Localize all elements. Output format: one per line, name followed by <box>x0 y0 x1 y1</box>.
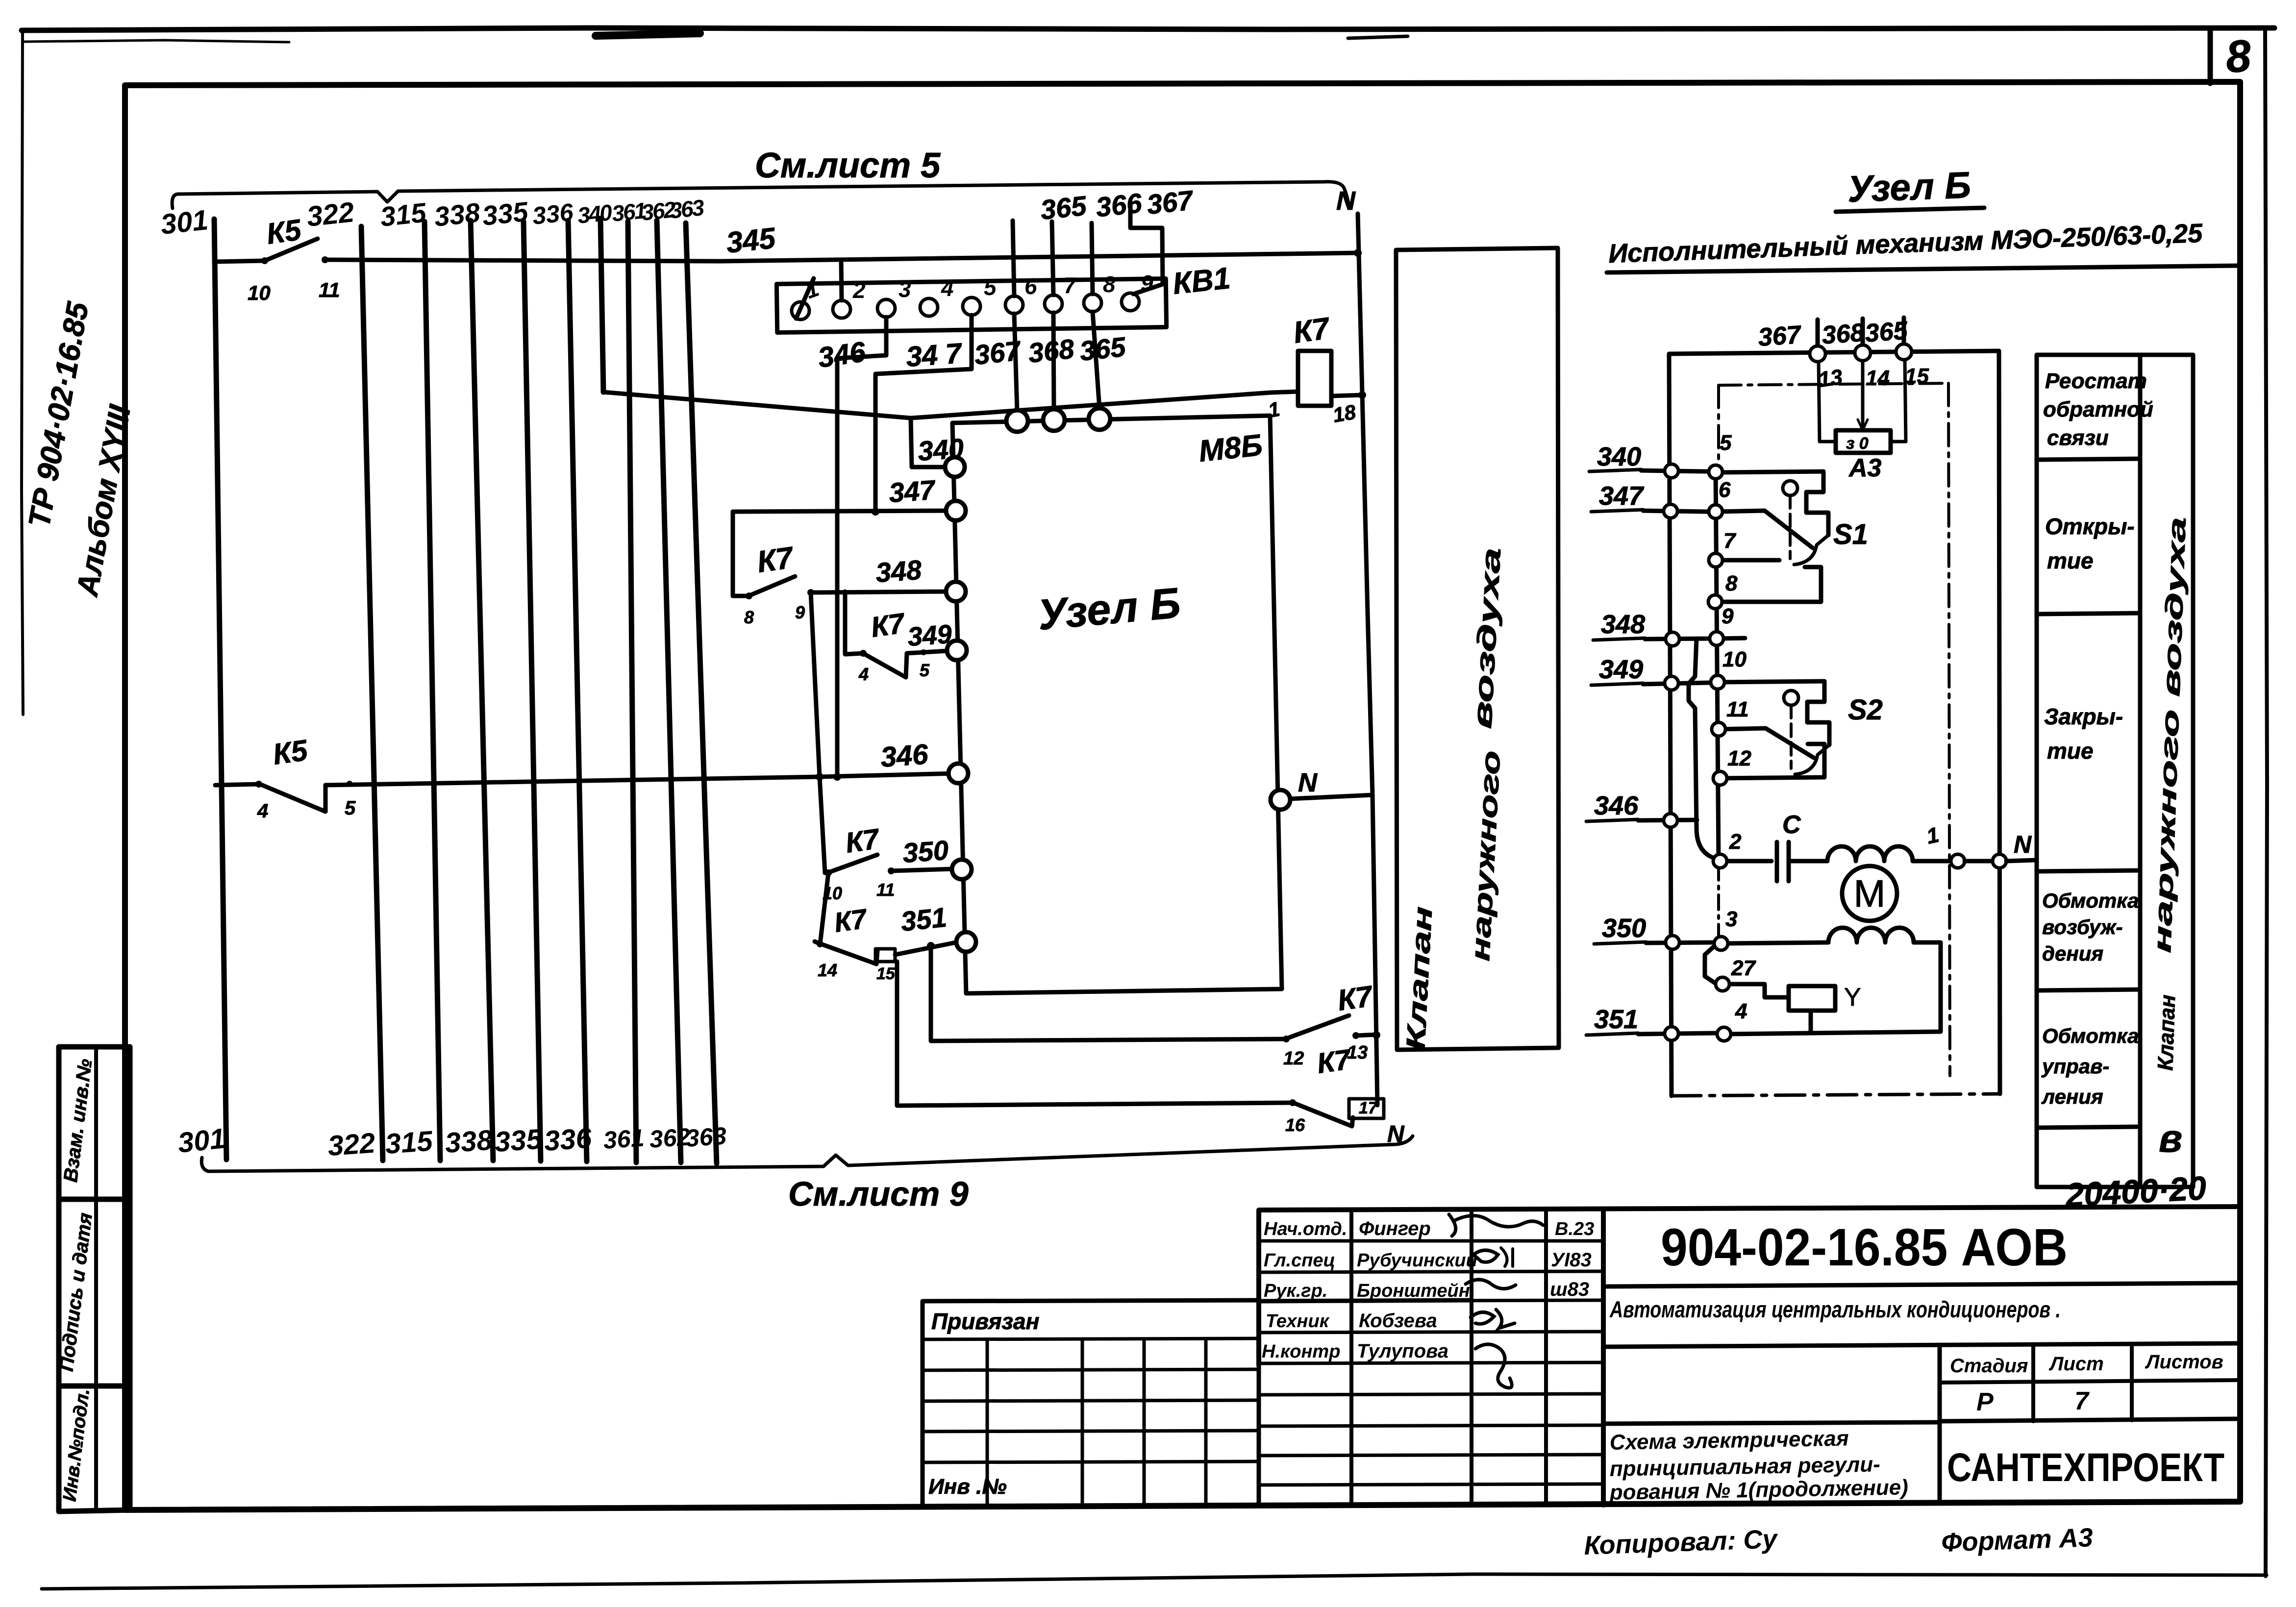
svg-text:335: 335 <box>494 1123 544 1158</box>
svg-text:Рубучинский: Рубучинский <box>1357 1250 1477 1271</box>
unit box Uzel B <box>952 416 1282 993</box>
KB1 pin 5 <box>963 297 980 315</box>
svg-text:904-02-16.85 АОВ: 904-02-16.85 АОВ <box>1661 1217 2068 1277</box>
svg-text:N: N <box>1298 768 1318 797</box>
paper bottom border <box>42 1574 2267 1589</box>
damper solenoid Y <box>1731 983 1861 1033</box>
svg-text:Бронштейн: Бронштейн <box>1357 1281 1470 1301</box>
svg-text:8: 8 <box>744 607 754 627</box>
svg-text:возбуж-: возбуж- <box>2042 915 2123 939</box>
svg-text:в: в <box>2159 1116 2182 1160</box>
terminal row 349 <box>1591 647 1747 685</box>
svg-text:34 7: 34 7 <box>905 337 964 373</box>
contact K5 10-11 <box>248 213 340 304</box>
KB1 pin 2 <box>833 300 850 318</box>
svg-text:315: 315 <box>379 197 428 232</box>
paper top border <box>22 28 2274 30</box>
node 340 on box <box>945 457 965 477</box>
svg-text:Узел Б: Узел Б <box>1847 164 1972 210</box>
svg-text:Р: Р <box>1976 1388 1994 1416</box>
svg-text:5: 5 <box>920 660 930 680</box>
svg-text:335: 335 <box>481 196 530 231</box>
svg-text:348: 348 <box>1601 610 1645 639</box>
svg-text:9: 9 <box>1722 604 1734 628</box>
svg-text:К7: К7 <box>832 903 870 938</box>
svg-text:3: 3 <box>898 276 911 302</box>
wire 345 drop to KB1 pin 2 <box>841 260 842 300</box>
wire leg to node 340 <box>911 418 946 467</box>
wire bus 362 <box>657 221 681 1162</box>
underline subtitle <box>1607 266 2240 272</box>
svg-text:11: 11 <box>1726 697 1749 721</box>
svg-text:8: 8 <box>1103 272 1116 297</box>
legend divider zakrytie <box>2037 870 2140 871</box>
svg-text:365: 365 <box>1078 331 1127 367</box>
svg-text:Гл.спец: Гл.спец <box>1264 1250 1335 1271</box>
title block outer <box>1259 1207 2240 1505</box>
svg-text:К7: К7 <box>844 823 882 859</box>
svg-text:347: 347 <box>888 474 937 508</box>
svg-text:14: 14 <box>1866 366 1890 390</box>
svg-text:обратной: обратной <box>2043 397 2153 421</box>
svg-text:КВ1: КВ1 <box>1171 261 1232 301</box>
svg-text:К7: К7 <box>1291 311 1332 350</box>
svg-text:17: 17 <box>1359 1099 1378 1117</box>
left stamp table divider row1 <box>59 1197 130 1202</box>
wire 367 top drop to pin 8 <box>1092 223 1093 294</box>
svg-text:Нач.отд.: Нач.отд. <box>1264 1219 1347 1239</box>
svg-text:2: 2 <box>1729 830 1742 854</box>
svg-text:363: 363 <box>685 1122 727 1152</box>
svg-text:К7: К7 <box>1335 979 1375 1016</box>
wire 367 top stub <box>1816 320 1820 354</box>
svg-text:338: 338 <box>433 197 482 232</box>
svg-text:5: 5 <box>345 797 356 819</box>
left margin stamp table <box>59 1047 130 1511</box>
svg-text:340: 340 <box>576 199 614 228</box>
terminal circles on actuator box edge <box>1665 464 1678 478</box>
svg-text:366: 366 <box>1095 187 1144 223</box>
node 348 on box <box>946 582 966 601</box>
svg-text:УІ83: УІ83 <box>1551 1249 1592 1271</box>
wire bus 322 <box>361 226 383 1161</box>
capacitor C and row 2 <box>1726 811 1827 881</box>
paper left border <box>22 29 23 715</box>
pryvyazan box <box>923 1300 1259 1506</box>
svg-text:346: 346 <box>816 336 868 374</box>
svg-text:348: 348 <box>874 554 923 588</box>
wire to terminal 1 <box>1913 859 1950 864</box>
signature squiggle 1 <box>1455 1215 1543 1227</box>
svg-text:К7: К7 <box>1315 1043 1354 1080</box>
junction on 346 row <box>816 773 824 781</box>
svg-text:338: 338 <box>444 1124 494 1159</box>
wire bus 336 <box>568 221 587 1162</box>
wire N stub out <box>2006 860 2035 861</box>
terminal row 347 <box>1591 478 1731 512</box>
terminal row 340 <box>1589 431 1732 471</box>
left stamp table divider row2 <box>59 1384 130 1389</box>
svg-text:350: 350 <box>1602 914 1646 943</box>
junction 351 branch <box>927 942 935 950</box>
S1 switch <box>1715 471 1868 602</box>
svg-text:Закры-: Закры- <box>2044 704 2123 729</box>
svg-text:Стадия: Стадия <box>1950 1355 2028 1377</box>
svg-text:К7: К7 <box>869 607 908 643</box>
svg-text:Инв .№: Инв .№ <box>928 1475 1007 1499</box>
svg-text:Y: Y <box>1844 983 1861 1012</box>
svg-text:7: 7 <box>1723 529 1737 553</box>
junction 345 x N <box>1354 249 1362 257</box>
contact K5 4-5 lower <box>215 734 356 822</box>
svg-text:6: 6 <box>1024 273 1037 299</box>
svg-text:4: 4 <box>257 800 268 822</box>
wire bus 363 <box>686 223 717 1163</box>
signature squiggle 2 <box>1473 1250 1498 1262</box>
pryvyazan rows <box>923 1338 1259 1462</box>
svg-text:См.лист 9: См.лист 9 <box>788 1175 969 1213</box>
KB1 pin 1 <box>792 302 809 320</box>
legend column outer <box>2037 355 2140 1187</box>
svg-text:350: 350 <box>901 835 949 868</box>
wire 351 node branch down <box>931 946 1286 1041</box>
svg-text:340: 340 <box>1597 442 1641 471</box>
KB1 pin 4 <box>920 298 938 316</box>
svg-text:N: N <box>2014 831 2032 858</box>
inner rail vertical <box>1716 472 1719 861</box>
svg-text:8: 8 <box>1725 571 1738 595</box>
svg-text:346: 346 <box>879 738 929 773</box>
wire 349 link up to 348 row <box>845 592 863 654</box>
svg-text:Формат А3: Формат А3 <box>1941 1523 2093 1558</box>
svg-text:363: 363 <box>669 195 706 223</box>
svg-text:336: 336 <box>543 1122 593 1157</box>
svg-text:М8Б: М8Б <box>1197 428 1264 469</box>
svg-text:5: 5 <box>1720 431 1732 455</box>
svg-text:15: 15 <box>876 964 896 983</box>
svg-text:N: N <box>1387 1121 1405 1147</box>
wire 347 row <box>733 511 946 512</box>
excitation winding <box>1827 846 1913 861</box>
actuator bottom dashdot <box>1672 1094 2000 1096</box>
contact K7 12-13 <box>1283 979 1377 1069</box>
svg-text:10: 10 <box>1722 647 1747 671</box>
svg-text:9: 9 <box>795 602 805 622</box>
resistor R3 <box>1819 360 1906 482</box>
legend divider obmotka1 <box>2037 989 2140 990</box>
node 349 on box <box>947 641 967 660</box>
svg-text:4: 4 <box>858 664 869 684</box>
valve strip right <box>2140 355 2193 1187</box>
svg-text:См.лист 5: См.лист 5 <box>755 146 941 185</box>
wire contact9 drop to 346 row <box>811 593 825 873</box>
valve box Klapan left <box>1396 248 1559 1050</box>
legend divider obmotka2 <box>2037 1127 2140 1128</box>
wire KB1 pin3 to 346 vertical <box>837 317 886 777</box>
svg-text:361: 361 <box>602 1124 645 1154</box>
svg-text:7: 7 <box>1064 272 1077 298</box>
wire 350 row <box>891 869 953 871</box>
wire 365 top stub <box>1902 318 1906 352</box>
svg-text:S1: S1 <box>1833 519 1868 550</box>
staff table columns <box>1351 1210 1546 1505</box>
terminal row 351 <box>1586 999 1747 1035</box>
pryvyazan grid verticals <box>987 1339 1206 1506</box>
svg-text:322: 322 <box>326 1127 376 1162</box>
terminal strip KB1 <box>776 278 1166 332</box>
svg-text:Автоматизация центральных конд: Автоматизация центральных кондиционеров … <box>1609 1296 2061 1322</box>
svg-text:322: 322 <box>305 196 356 233</box>
svg-text:Тулупова: Тулупова <box>1357 1340 1448 1362</box>
contact K7 10-11 <box>823 823 895 903</box>
wire KB1 pin7 drop to Uzel B top <box>1053 313 1054 410</box>
control winding <box>1828 928 1914 942</box>
svg-text:САНТЕХПРОЕКТ: САНТЕХПРОЕКТ <box>1947 1445 2224 1490</box>
svg-text:10: 10 <box>248 281 271 304</box>
terminal N circle <box>1993 854 2006 868</box>
node top 14 <box>1855 345 1871 361</box>
svg-text:ш83: ш83 <box>1550 1279 1589 1300</box>
svg-text:Схема электрическая: Схема электрическая <box>1609 1426 1849 1455</box>
KB1 pin 7 <box>1045 295 1062 313</box>
wire 301 to K5 row <box>214 261 265 262</box>
svg-text:5: 5 <box>984 274 997 300</box>
node 346 on box <box>948 764 968 783</box>
svg-text:тие: тие <box>2047 738 2094 764</box>
staff row underline heavier <box>1259 1300 1472 1301</box>
svg-text:Кобзева: Кобзева <box>1359 1310 1437 1332</box>
svg-text:Рук.гр.: Рук.гр. <box>1264 1281 1327 1301</box>
svg-text:315: 315 <box>384 1125 434 1160</box>
terminal row 350 <box>1594 907 1737 944</box>
svg-text:Привязан: Привязан <box>931 1309 1039 1334</box>
svg-text:C: C <box>1782 811 1801 839</box>
contact K7 16-17 <box>1285 1043 1405 1147</box>
svg-text:367: 367 <box>1146 184 1196 220</box>
legend divider otkrytie <box>2037 613 2140 614</box>
terminal row 348 <box>1593 604 1734 640</box>
svg-text:В.23: В.23 <box>1555 1219 1594 1239</box>
svg-text:301: 301 <box>159 204 210 241</box>
svg-text:349: 349 <box>1599 655 1643 684</box>
svg-text:4: 4 <box>1735 999 1747 1023</box>
svg-text:4: 4 <box>941 275 954 301</box>
svg-text:27: 27 <box>1731 956 1756 980</box>
svg-text:з 0: з 0 <box>1846 434 1869 453</box>
svg-text:Фингер: Фингер <box>1359 1218 1431 1239</box>
svg-text:3: 3 <box>1725 907 1737 931</box>
svg-text:6: 6 <box>1719 478 1731 502</box>
wire slash to KB1 pin 1 <box>796 278 814 319</box>
terminal row 346 <box>1586 791 1697 821</box>
node 350 on box <box>952 860 972 879</box>
contact K7 4-5 <box>858 607 930 684</box>
KB1 pin 3 <box>877 299 895 317</box>
wire bus 315 <box>424 222 440 1161</box>
terminal 1 circle <box>1951 854 1965 868</box>
crank 3 to 27 <box>1705 946 1717 984</box>
svg-text:К5: К5 <box>271 734 310 771</box>
wire bus 335 <box>524 222 541 1161</box>
wire 351 row <box>895 942 958 955</box>
wire 340 branch from bus to coil K7 pin 1 <box>603 392 1298 418</box>
svg-text:368: 368 <box>1027 333 1076 369</box>
small mark in stamp cell <box>123 1475 125 1485</box>
relay coil K7 <box>1266 311 1366 427</box>
KB1 pin 9 <box>1122 293 1139 311</box>
svg-text:346: 346 <box>1594 791 1639 820</box>
svg-text:тие: тие <box>2047 548 2094 573</box>
wire 365 top drop to pin 6 <box>1013 221 1014 296</box>
svg-text:351: 351 <box>899 902 948 937</box>
svg-text:345: 345 <box>724 222 777 259</box>
actuator outline box <box>1669 351 2000 1096</box>
svg-text:Лист: Лист <box>2048 1353 2104 1375</box>
svg-text:336: 336 <box>531 198 575 230</box>
common vertical 348-346-2 <box>1689 639 1716 859</box>
junction c3 wire on 346 row <box>833 773 841 781</box>
svg-text:11: 11 <box>319 278 340 301</box>
contact K7 14-15 <box>815 903 896 983</box>
scan smudge dash top center 2 <box>1348 36 1408 38</box>
node top 13 <box>1810 346 1825 362</box>
wire contact10 drop to contact14 <box>820 873 828 944</box>
svg-text:M: M <box>1854 872 1886 915</box>
svg-text:12: 12 <box>1727 746 1751 770</box>
paper top border doubled segment <box>25 40 289 42</box>
wire bus 340 <box>600 220 603 392</box>
svg-text:Клапан: Клапан <box>2153 994 2180 1071</box>
mech link dashdot vertical <box>1948 383 1950 1076</box>
svg-text:Реостат: Реостат <box>2045 369 2147 393</box>
svg-text:365: 365 <box>1039 190 1088 225</box>
wire KB1 pin5 to 347 vertical <box>875 315 972 512</box>
terminal circles inner column pins <box>1709 465 1722 479</box>
svg-text:Откры-: Откры- <box>2045 514 2135 539</box>
svg-text:16: 16 <box>1285 1115 1305 1135</box>
legend divider reostat <box>2037 459 2140 460</box>
svg-text:14: 14 <box>818 960 837 980</box>
junction 347 drop <box>872 508 879 516</box>
wire KB1 pin8 drop to Uzel B top <box>1093 312 1099 408</box>
svg-text:связи: связи <box>2047 426 2109 450</box>
wire 347 to contact8 drop <box>731 512 735 596</box>
svg-text:Обмотка: Обмотка <box>2042 889 2139 912</box>
mech link dashdot horizontal <box>1719 383 1948 385</box>
svg-text:347: 347 <box>1599 481 1645 511</box>
node N on box right <box>1271 790 1290 810</box>
node on box top 3 <box>1089 408 1110 430</box>
svg-text:8: 8 <box>2224 31 2253 82</box>
node on box top 2 <box>1043 409 1065 431</box>
svg-text:Обмотка: Обмотка <box>2042 1024 2139 1047</box>
svg-text:7: 7 <box>2074 1387 2090 1415</box>
wire 349 row <box>907 651 948 653</box>
wire 3 stub <box>1726 942 1828 943</box>
S2 switch <box>1718 681 1883 778</box>
wire winding right down <box>1725 942 1941 1034</box>
node 347 on box <box>946 501 966 520</box>
wire KB1 pin6 drop to Uzel B top <box>1014 314 1017 411</box>
svg-text:управ-: управ- <box>2041 1055 2109 1078</box>
svg-text:367: 367 <box>1757 321 1803 352</box>
wire 1 to N <box>1965 859 1993 864</box>
wire 366 top drop to pin 7 <box>1052 222 1053 295</box>
wire N node to N vertical <box>1290 795 1373 799</box>
svg-text:Листов: Листов <box>2145 1351 2223 1373</box>
wire 348 row <box>811 592 947 593</box>
svg-text:А3: А3 <box>1848 454 1882 482</box>
node on box top 1 <box>1006 410 1028 432</box>
svg-text:301: 301 <box>176 1122 227 1159</box>
node top 15 <box>1896 344 1912 360</box>
wire N vertical <box>1358 214 1377 1105</box>
junction row A x N <box>1373 1031 1380 1039</box>
svg-text:К5: К5 <box>264 213 304 250</box>
staff rows <box>1259 1241 1603 1485</box>
svg-text:К7: К7 <box>755 541 796 579</box>
svg-text:Техник: Техник <box>1266 1311 1330 1332</box>
top bracket see sheet 5 <box>172 182 1349 208</box>
wire 368 top stub <box>1861 319 1865 353</box>
mech link inner dashdot <box>1717 865 1720 940</box>
left stamp table divider vertical <box>94 1047 98 1511</box>
svg-text:12: 12 <box>1283 1048 1304 1069</box>
svg-text:дения: дения <box>2042 942 2103 965</box>
svg-text:Н.контр: Н.контр <box>1262 1341 1340 1362</box>
row 9 inner stub <box>1717 638 1745 639</box>
mech link dashdot stub <box>1717 385 1720 467</box>
signature squiggle 5 <box>1475 1344 1512 1388</box>
paper right border <box>2265 29 2267 1576</box>
KB1 pin 8 <box>1084 294 1101 312</box>
motor M <box>1842 866 1897 921</box>
wire bus 301 <box>214 219 226 1160</box>
wire bus 338 <box>471 221 493 1161</box>
KB1 pin 6 <box>1005 296 1023 314</box>
signature squiggle 3 <box>1466 1280 1516 1289</box>
svg-text:11: 11 <box>876 880 895 900</box>
wire contact15 branch down <box>897 962 1293 1106</box>
sheet number box divider <box>2208 29 2213 83</box>
svg-text:N: N <box>1336 186 1356 216</box>
svg-text:S2: S2 <box>1848 694 1883 726</box>
node 351 on box <box>956 932 976 952</box>
contact K7 8-9 <box>733 541 814 627</box>
svg-text:ления: ления <box>2041 1085 2103 1108</box>
svg-text:351: 351 <box>1594 1005 1638 1034</box>
wire bus 361 <box>628 222 636 1162</box>
wire top L-bend to pin 9 <box>1130 202 1163 294</box>
svg-text:18: 18 <box>1331 400 1358 427</box>
svg-text:367: 367 <box>973 335 1023 371</box>
wire 345 row from K5 to N <box>325 253 1358 261</box>
svg-text:2: 2 <box>852 277 866 303</box>
svg-text:13: 13 <box>1817 365 1844 392</box>
underline title <box>1836 208 1984 212</box>
scan smudge dash top center <box>596 33 700 36</box>
bottom bracket see sheet 9 <box>201 1136 1413 1171</box>
signature squiggle 4 <box>1471 1310 1515 1328</box>
wire 346 row <box>325 773 956 785</box>
big block dividers <box>1603 1283 2240 1286</box>
